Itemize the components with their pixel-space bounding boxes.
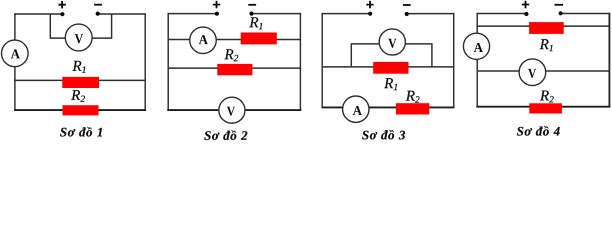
resistor R1 circuit 4 — [529, 22, 564, 34]
wire bottom branch through R2 circuit 4 — [476, 106, 610, 108]
resistor R2 circuit 4 — [529, 103, 562, 113]
wire top left from + terminal circuit 1 — [14, 13, 62, 15]
junction node at plus terminal circuit 4 — [524, 12, 528, 16]
ammeter A circuit 4 — [463, 33, 489, 59]
wire right side circuit 2 — [299, 13, 301, 110]
resistor R1 circuit 1 — [62, 77, 99, 88]
wire voltmeter branch left circuit 1 — [50, 14, 66, 38]
voltmeter V circuit 2 — [219, 97, 245, 123]
label R2 circuit 4 — [540, 91, 554, 103]
battery plus terminal circuit 3 — [366, 1, 373, 8]
wire right side circuit 1 — [144, 13, 146, 110]
label R1 circuit 1 — [72, 61, 85, 73]
wire bottom branch through voltmeter circuit 2 — [167, 109, 301, 111]
voltmeter V circuit 4 — [519, 59, 546, 86]
caption So do 2 — [204, 130, 247, 140]
label R2 circuit 3 — [406, 91, 420, 103]
junction node at plus terminal circuit 1 — [60, 12, 64, 16]
battery minus terminal circuit 3 — [403, 4, 411, 6]
resistor R2 circuit 3 — [396, 103, 429, 114]
ammeter A circuit 1 — [2, 40, 29, 67]
wire top right from - terminal circuit 3 — [407, 13, 455, 15]
label R1 circuit 4 — [540, 39, 553, 51]
battery minus terminal circuit 2 — [248, 4, 256, 6]
resistor R1 circuit 2 — [241, 33, 277, 45]
junction node at plus terminal circuit 3 — [368, 12, 372, 16]
battery plus terminal circuit 4 — [522, 1, 529, 8]
junction node at minus terminal circuit 1 — [96, 12, 100, 16]
wire left side circuit 4 — [476, 13, 478, 107]
wire R1 rung circuit 1 — [14, 79, 146, 81]
wire R1 rung circuit 3 — [322, 66, 455, 68]
voltmeter V circuit 3 — [379, 29, 405, 55]
wire right side circuit 3 — [453, 13, 455, 108]
wire top left from + terminal circuit 4 — [477, 13, 527, 15]
label R2 circuit 1 — [71, 90, 85, 102]
junction node at plus terminal circuit 2 — [215, 12, 219, 16]
wire left side circuit 2 — [167, 13, 169, 110]
resistor R2 circuit 2 — [217, 64, 252, 75]
wire top right from - terminal circuit 4 — [561, 13, 611, 15]
ammeter A circuit 2 — [190, 27, 217, 54]
label R1 circuit 2 — [249, 17, 262, 29]
wire top left from + terminal circuit 2 — [168, 13, 217, 15]
wire bottom branch through R2 circuit 1 — [14, 109, 146, 111]
wire bottom branch through ammeter and R2 circuit 3 — [322, 106, 455, 108]
wire voltmeter bracket left circuit 3 — [351, 44, 380, 68]
battery minus terminal circuit 4 — [555, 4, 564, 6]
wire top right from - terminal circuit 1 — [98, 13, 146, 15]
ammeter A circuit 3 — [343, 96, 369, 122]
junction node at minus terminal circuit 2 — [249, 12, 253, 16]
battery plus terminal circuit 1 — [58, 1, 65, 8]
wire left side circuit 3 — [321, 13, 323, 108]
wire ammeter and R1 rung circuit 2 — [168, 39, 302, 41]
caption So do 1 — [60, 127, 102, 137]
wire voltmeter rung circuit 4 — [477, 70, 610, 72]
label R2 circuit 2 — [224, 49, 238, 61]
wire right side circuit 4 — [608, 13, 610, 107]
wire R2 rung circuit 2 — [168, 67, 302, 69]
voltmeter V circuit 1 — [65, 24, 92, 51]
resistor R2 circuit 1 — [63, 105, 99, 115]
wire R1 rung circuit 4 — [477, 25, 610, 27]
junction node at minus terminal circuit 4 — [559, 11, 563, 15]
wire voltmeter branch right circuit 1 — [92, 14, 112, 38]
caption So do 3 — [362, 130, 405, 140]
wire voltmeter bracket right circuit 3 — [405, 44, 432, 68]
resistor R1 circuit 3 — [373, 62, 408, 74]
junction node at minus terminal circuit 3 — [405, 12, 409, 16]
battery plus terminal circuit 2 — [213, 1, 220, 8]
wire top right from - terminal circuit 2 — [252, 13, 302, 15]
battery minus terminal circuit 1 — [94, 4, 102, 6]
caption So do 4 — [517, 126, 560, 136]
label R1 circuit 3 — [384, 78, 397, 90]
wire left side circuit 1 — [14, 13, 16, 110]
wire top left from + terminal circuit 3 — [322, 13, 371, 15]
